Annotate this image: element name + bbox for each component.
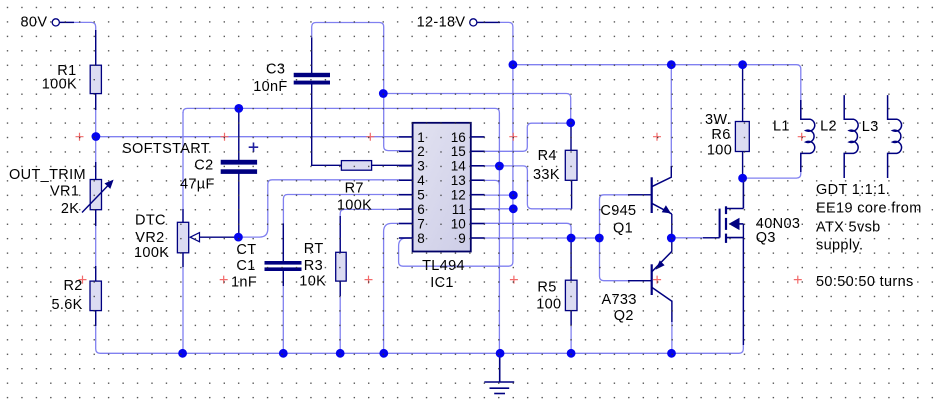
- wire C3 top / pin2 vertical with top jog y=22.5: [312, 23, 400, 151]
- wire C2 bottom lead: [238, 173, 240, 236]
- wire softstart horizontal y=108.4 with corners down at x=183 (through VR2) and x=499.4 (to ground rail): [183, 108, 499, 353]
- resistor R1: [90, 65, 101, 93]
- node pin11: [509, 204, 518, 213]
- DARK LEADS (navy overlays on wires near component bodies): [59, 22, 743, 345]
- wire C1 top lead: [282, 223, 284, 261]
- resistor R3: [336, 252, 347, 281]
- wire R4 top lead: [570, 123, 572, 151]
- node R4 top: [566, 118, 575, 127]
- node Q3 drain: [738, 174, 747, 183]
- wire C2 vertical lower (C2 bottom plate to DTC node): [238, 174, 240, 238]
- node C3/pin2/R4: [379, 89, 388, 98]
- wire pin10 corner down to R5 top dot: [484, 223, 571, 238]
- wire Q3 source vertical: [742, 224, 744, 345]
- node R5 top: [567, 234, 576, 243]
- transistor Q3 (N-MOSFET 40N03): [720, 178, 744, 243]
- node Q1 collector top: [667, 60, 676, 69]
- inductor L3: [888, 95, 902, 178]
- node emitters: [667, 234, 676, 243]
- wire VR2 vertical x=183: [182, 112, 184, 353]
- wire VR1 bottom lead: [95, 210, 97, 227]
- inductor L1: [801, 100, 815, 172]
- wire R3 top lead: [339, 216, 341, 252]
- wire R5 bottom lead: [570, 311, 572, 325]
- ground: [484, 353, 514, 393]
- wire 80V terminal lead: [59, 21, 74, 23]
- wire C3-top node to R4 top: [383, 94, 570, 123]
- wire top rail y=64.7 to L1 top: [513, 65, 801, 119]
- rail node ground: [496, 349, 505, 358]
- wire pin14 through dot to R4 bottom: [484, 166, 571, 209]
- wire C1 bottom lead: [282, 271, 284, 286]
- potentiometer VR1: [82, 180, 114, 213]
- capacitor C3: [294, 73, 330, 85]
- resistor R4: [565, 150, 577, 180]
- wire Q2 base lead segment: [628, 280, 652, 282]
- node 12-18V rail: [509, 60, 518, 69]
- wire 12-18V terminal lead: [477, 21, 500, 23]
- wire pin1 net: divider node to IC pin1: [96, 136, 400, 138]
- wire R5 bottom to rail: [570, 311, 572, 353]
- wire pin12 to 12-18V vertical: [484, 194, 513, 196]
- WIRES (light blue): [59, 22, 801, 353]
- wire R3 bottom lead: [339, 281, 341, 296]
- wire IC pin7 to rail: [384, 223, 400, 353]
- wire pin9 to R5 top dot and Q1/Q2 base vertical: [484, 237, 599, 239]
- potentiometer VR2: [177, 222, 199, 253]
- rail node pin7: [379, 349, 388, 358]
- resistor R7 (horizontal): [341, 161, 371, 171]
- wire VR2 top lead: [182, 209, 184, 222]
- wire C3 bottom lead down to R7 row: [311, 84, 313, 165]
- wire Q1 collector up to top rail: [670, 65, 672, 176]
- wire R5 top lead: [570, 238, 572, 280]
- wire IC pin8 down, under IC, up to 12-18V vertical with pin11/pin12 taps: [399, 65, 513, 267]
- wire Q2 collector lead: [671, 301, 673, 323]
- resistor R2: [90, 281, 101, 311]
- IC pin stubs right 16-9: [471, 137, 485, 238]
- capacitor C1: [265, 261, 302, 271]
- wire R2 top lead: [95, 266, 97, 281]
- resistor R6: [735, 122, 749, 152]
- wire DTC node to IC pin4: [238, 180, 399, 237]
- wire R6 bottom lead: [742, 152, 744, 179]
- node DTC: [234, 233, 243, 242]
- wire IC pin5 to C1 top: [283, 195, 399, 263]
- wire 12-18V terminal to top rail: [477, 22, 513, 65]
- page registration crosses (red): [76, 133, 806, 284]
- terminal 80V: [52, 19, 59, 26]
- resistor R5: [565, 280, 577, 310]
- capacitor C2 (electrolytic, with + mark): [221, 160, 257, 174]
- wire R3 bottom to rail: [339, 281, 341, 353]
- node R6 top: [738, 60, 747, 69]
- node pin12 VCC: [509, 191, 518, 200]
- wire emitter junction leads: [671, 214, 673, 252]
- node base drive: [595, 234, 604, 243]
- wire Q1 collector lead: [670, 166, 672, 177]
- IC pin stubs left 1-8: [399, 137, 413, 238]
- wire R7 right lead to pin3: [371, 164, 412, 166]
- wire pin11 to 12-18V vertical: [484, 208, 513, 210]
- wire Q3 gate lead: [703, 237, 720, 239]
- node divider/pin1: [92, 132, 101, 141]
- wire C2 vertical upper (dot at 108.4 down to C2 top plate): [238, 108, 240, 160]
- rail node Q2 collector: [667, 349, 676, 358]
- wire L1 bottom to drain dot: [743, 154, 801, 178]
- wire VR2 bottom lead: [182, 253, 184, 267]
- wire emitter node to Q3 gate: [671, 237, 719, 239]
- wire C3 top lead: [311, 38, 313, 74]
- wire pin13 corner joining ground vertical: [484, 180, 499, 184]
- transistor Q1 (NPN C945): [652, 177, 672, 214]
- IC pin numbers: [417, 130, 466, 246]
- node pin14/REF: [495, 162, 504, 171]
- wire pin15 S-route to R4 top dot: [484, 123, 571, 151]
- IC U1 TL494 body: [413, 123, 471, 252]
- wire 80V terminal to R1 top and divider chain down to bottom rail, then rail to Q3 source: [59, 22, 743, 353]
- rail node VR2: [178, 349, 187, 358]
- terminal 12-18V: [470, 19, 477, 26]
- wire C2 top lead: [238, 109, 240, 160]
- wire R7 left lead: [311, 164, 342, 166]
- node C2 top: [234, 104, 243, 113]
- wire Q2 collector down to rail: [671, 301, 673, 353]
- wire IC pin6 to R3 top: [340, 209, 399, 252]
- inductor L2: [844, 95, 858, 178]
- wire C1 bottom to rail: [282, 271, 284, 354]
- rail node C1: [279, 349, 288, 358]
- wire Q1 base lead segment: [628, 194, 652, 196]
- wire DTC wiper line to VR2 arrow: [200, 236, 239, 238]
- wire Q1 base / Q2 base bracket: [600, 195, 652, 281]
- wire R6 top lead: [742, 65, 744, 122]
- rail node R5: [567, 349, 576, 358]
- wire VR1 top lead: [95, 162, 97, 180]
- wire R2 bottom lead: [95, 310, 97, 326]
- wire R1 bottom lead: [95, 94, 97, 110]
- rail node R3: [336, 349, 345, 358]
- wire R4 bottom lead: [571, 180, 573, 209]
- transistor Q2 (PNP A733): [652, 251, 672, 301]
- wire R1 top lead: [95, 30, 97, 65]
